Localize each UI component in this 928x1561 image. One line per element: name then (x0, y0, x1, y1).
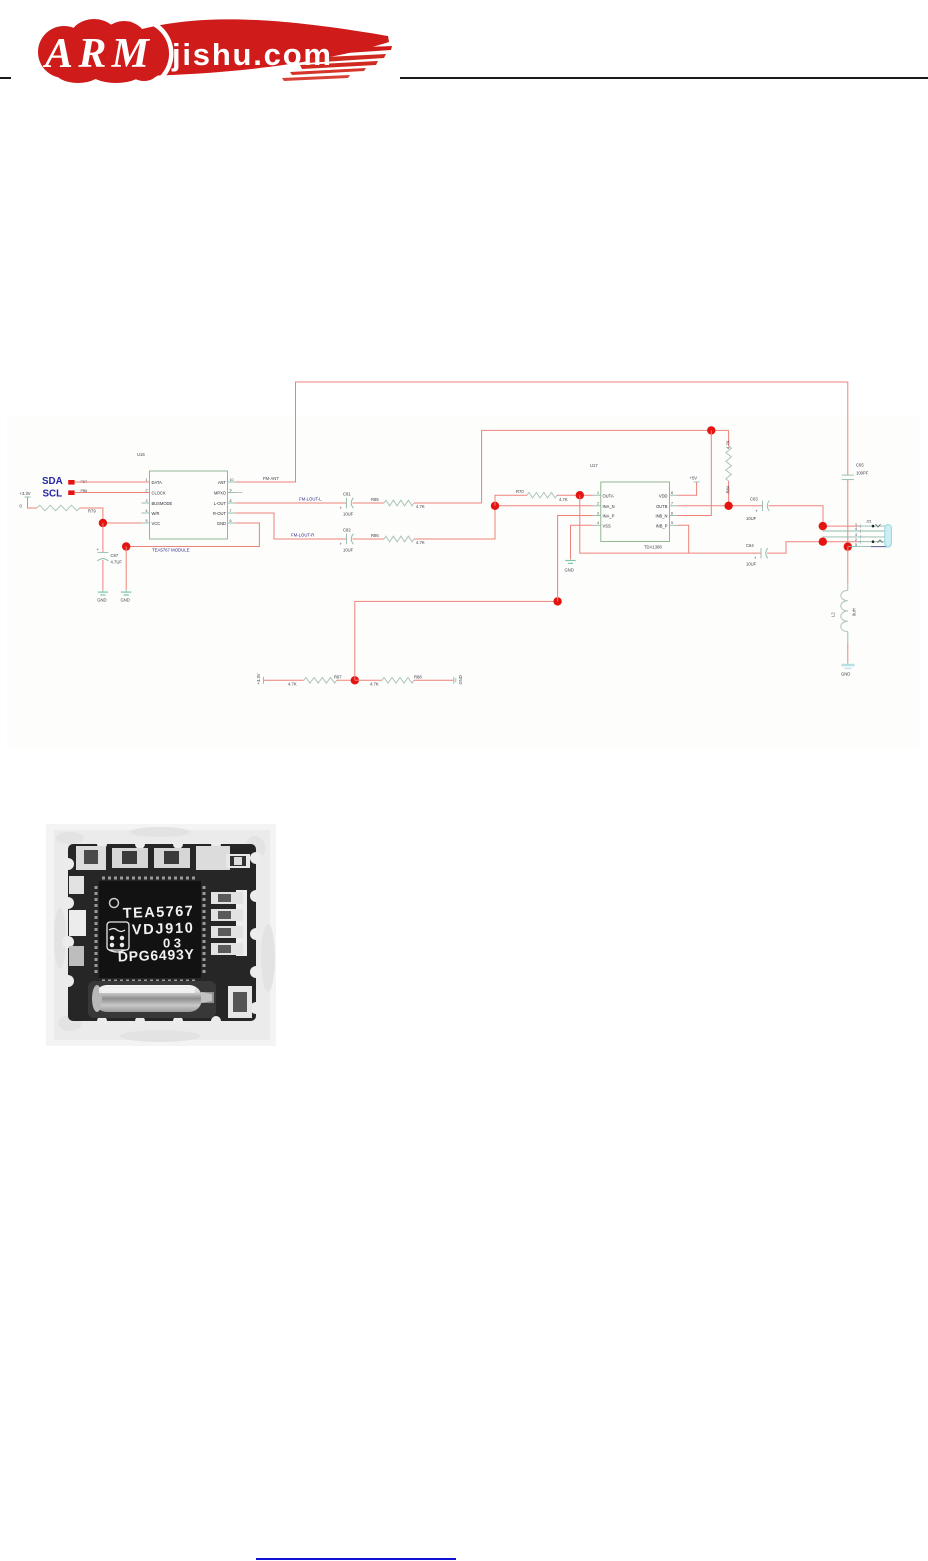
svg-text:R87: R87 (334, 675, 342, 680)
wire rail to INB_N (678, 430, 712, 515)
wire R86 to INA_N (414, 506, 593, 539)
pin1 marker (110, 899, 119, 908)
node SDA (42, 476, 87, 487)
svg-text:R-OUT: R-OUT (213, 511, 226, 516)
svg-text:10UF: 10UF (746, 516, 757, 521)
wire +3.3V to R87 (264, 679, 304, 681)
junction ring (819, 538, 827, 546)
svg-text:SCL: SCL (43, 489, 63, 500)
svg-text:+3.3V: +3.3V (20, 491, 31, 496)
capacitor C81 10UF (340, 492, 354, 517)
svg-text:W/R: W/R (152, 511, 160, 516)
wire R70 to OUTA (557, 494, 593, 496)
svg-text:4.7K: 4.7K (370, 681, 379, 686)
wire R85 to riser (414, 430, 729, 503)
wire VSS to ground (571, 525, 593, 559)
swoosh brush stroke (138, 19, 389, 76)
op-amp U16 TEA5767 MODULE box (137, 452, 228, 553)
capacitor C63 10UF (746, 497, 769, 521)
wire +3.3V to R79 (28, 497, 38, 508)
svg-text:L2: L2 (831, 612, 836, 617)
wire SDA to pin1 (75, 481, 150, 483)
svg-text:C64: C64 (746, 543, 754, 548)
capacitor C64 10UF (746, 543, 768, 567)
wire C63 to jack tip (769, 506, 861, 526)
svg-text:TEA5767: TEA5767 (123, 904, 194, 922)
junction OUTB (724, 502, 732, 510)
resistor R86 4.7K (371, 533, 425, 545)
junction OUTA (576, 491, 584, 499)
wire sleeve junction to L2 (847, 547, 849, 583)
svg-text:+5V: +5V (690, 476, 698, 481)
svg-text:ARM: ARM (42, 31, 151, 77)
svg-text:4.7K: 4.7K (726, 440, 731, 449)
right pads column (211, 890, 247, 956)
schematic (0, 370, 928, 760)
junction divider (351, 676, 359, 684)
svg-text:4.7K: 4.7K (559, 497, 568, 502)
svg-text:ANT: ANT (218, 480, 227, 485)
power +3.3V (divider) (256, 673, 264, 684)
red blob (38, 26, 90, 78)
svg-text:TDA1308: TDA1308 (644, 545, 662, 550)
ground GND (L2) (841, 662, 855, 677)
junction mid rail (707, 426, 715, 434)
ground GND (divider) (454, 675, 463, 684)
svg-text:4.7UF: 4.7UF (111, 560, 123, 565)
crystal can (88, 981, 216, 1018)
wire C64 to jack ring (767, 542, 860, 553)
svg-text:9uH: 9uH (852, 608, 857, 616)
svg-text:1: 1 (146, 478, 148, 482)
wire R-OUT to C82 (236, 513, 347, 539)
resistor R88 4.7K (370, 675, 422, 687)
svg-text:MPXO: MPXO (214, 491, 226, 496)
svg-text:BUSMODE: BUSMODE (152, 501, 173, 506)
capacitor C82 10UF (340, 528, 354, 553)
svg-text:3: 3 (597, 511, 599, 515)
bottom right pad (228, 986, 252, 1018)
header rule left (0, 77, 11, 79)
wire R88 to GND (414, 679, 454, 681)
wire C65 to sleeve junction (847, 480, 849, 547)
wire INB_P drop (678, 525, 689, 553)
left pads (69, 876, 86, 966)
svg-text:DPG6493Y: DPG6493Y (118, 946, 195, 965)
svg-text:INB_P: INB_P (656, 524, 668, 529)
svg-text:8: 8 (671, 491, 673, 495)
svg-text:10UF: 10UF (746, 562, 757, 567)
svg-text:4.7K: 4.7K (416, 540, 425, 545)
svg-text:CLOCK: CLOCK (152, 491, 166, 496)
connector J21 audio jack (823, 520, 892, 548)
junction sleeve (844, 542, 852, 550)
logo ARMjishu.com (20, 8, 420, 92)
svg-text:4.7K: 4.7K (288, 681, 297, 686)
wire junction down to GND (125, 547, 127, 590)
IC markings (118, 904, 195, 965)
svg-text:5: 5 (146, 519, 148, 523)
power +3.3V (20, 491, 31, 497)
wire divider to INA_P (355, 601, 558, 680)
svg-text:100PF: 100PF (856, 471, 869, 476)
svg-text:GND: GND (565, 568, 574, 573)
resistor R84 4.7K vertical (726, 430, 732, 505)
svg-text:GND: GND (841, 672, 850, 677)
inductor L2 9uH (831, 583, 857, 643)
svg-text:L-OUT: L-OUT (214, 501, 227, 506)
junction VCC node (99, 519, 107, 527)
svg-text:OUTB: OUTB (656, 504, 668, 509)
svg-text:10UF: 10UF (343, 512, 354, 517)
resistor R79 value 0 (20, 504, 97, 514)
wire GND pin6 return (126, 523, 259, 547)
wire C81 to R85 (353, 502, 385, 504)
module body (68, 844, 256, 1021)
svg-text:jishu.com: jishu.com (171, 37, 331, 72)
svg-text:4: 4 (597, 521, 599, 525)
IC body (99, 881, 201, 978)
wire junction to R70 (495, 495, 527, 506)
wire FM-ANT net (236, 382, 848, 482)
junction INA_N (491, 502, 499, 510)
svg-text:FM-LOUT-L: FM-LOUT-L (299, 497, 322, 502)
svg-text:U16: U16 (137, 452, 145, 457)
wire INA_P riser (558, 516, 593, 602)
svg-text:2: 2 (146, 488, 148, 492)
svg-text:VDD: VDD (659, 493, 668, 498)
header rule right (400, 77, 928, 79)
svg-text:C87: C87 (111, 553, 119, 558)
svg-text:R88: R88 (414, 675, 422, 680)
IC pin fringe (96, 878, 204, 981)
svg-text:INA_N: INA_N (603, 504, 615, 509)
svg-text:7: 7 (671, 502, 673, 506)
svg-text:DATA: DATA (152, 480, 163, 485)
svg-text:1: 1 (855, 522, 857, 526)
schematic background (7, 416, 920, 749)
U16 pin names (146, 478, 234, 526)
svg-text:R84: R84 (726, 485, 731, 493)
svg-text:OUTA: OUTA (603, 493, 614, 498)
wire R87 to junction (337, 679, 355, 681)
svg-text:5: 5 (855, 543, 857, 547)
svg-text:7: 7 (230, 509, 232, 513)
wire VCC node down to C87 (102, 523, 104, 552)
ground GND (C87) (97, 590, 108, 603)
resistor R70 4.7K (516, 489, 568, 502)
junction INA_P drop (553, 597, 561, 605)
node SCL (43, 489, 88, 500)
power +5V (678, 476, 700, 496)
ground GND (pin6) (121, 590, 132, 603)
castellations (62, 839, 262, 1026)
op-amp U17 TDA1308 box (590, 463, 670, 550)
svg-text:C65: C65 (856, 463, 864, 468)
wire C82 to R86 (353, 538, 385, 540)
wire L2 to GND (847, 643, 849, 662)
svg-text:J21: J21 (866, 520, 872, 524)
wire junction to R88 (355, 679, 382, 681)
capacitor C87 4.7UF (97, 547, 123, 565)
white arc (154, 24, 171, 78)
svg-text:GND: GND (217, 521, 226, 526)
svg-text:9: 9 (230, 488, 232, 492)
svg-text:10: 10 (230, 478, 234, 482)
svg-text:4: 4 (855, 527, 857, 531)
svg-text:FM-ANT: FM-ANT (263, 476, 279, 481)
capacitor C65 100PF (842, 382, 869, 480)
svg-text:VSS: VSS (603, 524, 611, 529)
svg-text:C63: C63 (750, 497, 758, 502)
wire C87 to GND (102, 560, 104, 590)
svg-text:R86: R86 (371, 533, 379, 538)
svg-text:C81: C81 (343, 492, 351, 497)
svg-text:5: 5 (671, 521, 673, 525)
svg-text:GND: GND (458, 675, 463, 684)
footer link underline (256, 1558, 456, 1561)
svg-text:TEA5767 MODULE: TEA5767 MODULE (152, 548, 190, 553)
chip photo (40, 818, 280, 1050)
svg-text:10UF: 10UF (343, 548, 354, 553)
svg-text:6: 6 (671, 511, 673, 515)
svg-text:R70: R70 (516, 489, 524, 494)
svg-text:INB_N: INB_N (655, 514, 667, 519)
svg-text:4.7K: 4.7K (416, 504, 425, 509)
svg-text:3: 3 (855, 533, 857, 537)
U17 pin stubs (593, 495, 678, 525)
svg-text:+3.3V: +3.3V (256, 673, 261, 684)
svg-text:GND: GND (121, 598, 130, 603)
svg-text:1: 1 (597, 491, 599, 495)
junction GND return (122, 542, 130, 550)
wire OUTA junction to C64 row (580, 495, 761, 553)
U16 pin stubs (142, 482, 236, 523)
svg-text:3: 3 (146, 499, 148, 503)
svg-text:2: 2 (855, 538, 857, 542)
wire SCL to pin2 (75, 492, 150, 494)
svg-text:INA_P: INA_P (603, 514, 615, 519)
svg-text:6: 6 (230, 519, 232, 523)
svg-text:U17: U17 (590, 463, 598, 468)
wire L-OUT to C81 (236, 502, 347, 504)
photo background (46, 824, 276, 1046)
svg-text:8: 8 (230, 499, 232, 503)
svg-text:R79: R79 (88, 509, 96, 514)
U17 pin names (597, 491, 673, 529)
svg-text:VCC: VCC (152, 521, 161, 526)
top SMD pads (76, 846, 250, 870)
svg-text:C82: C82 (343, 528, 351, 533)
wire R79 to VCC (80, 508, 103, 523)
svg-text:FM-LOUT-R: FM-LOUT-R (291, 533, 314, 538)
svg-text:SDA: SDA (42, 476, 63, 487)
junction tip (819, 522, 827, 530)
svg-text:2: 2 (597, 502, 599, 506)
svg-text:GND: GND (97, 598, 106, 603)
svg-text:R85: R85 (371, 497, 379, 502)
svg-text:4: 4 (146, 509, 148, 513)
resistor R85 4.7K (371, 497, 425, 509)
philips logo (107, 922, 129, 952)
wire OUTB to C63 (678, 505, 763, 507)
pin MPXO no-connect stub (236, 492, 243, 494)
resistor R87 4.7K (288, 675, 342, 687)
ground GND (VSS) (565, 561, 576, 573)
